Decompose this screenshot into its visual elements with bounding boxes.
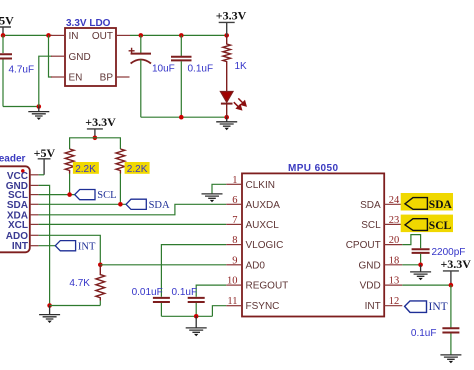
svg-text:20: 20 — [389, 235, 400, 246]
highlight 2.2K left — [73, 162, 99, 174]
MPU right pin leads — [384, 204, 402, 305]
svg-text:23: 23 — [389, 215, 400, 226]
ground header — [39, 306, 60, 324]
wire GND pin18 — [402, 264, 420, 266]
svg-text:IN: IN — [69, 31, 79, 42]
header pin1 mark — [21, 169, 25, 173]
resistor R 2.2K right — [116, 149, 125, 174]
capacitor C 0.1uF fsync — [188, 298, 205, 316]
junction 10uF top — [139, 33, 144, 38]
svg-text:2.2K: 2.2K — [127, 164, 148, 175]
wire AD0 to pin9 — [100, 264, 226, 266]
resistor R 1K — [223, 35, 231, 91]
wire ground rail left — [3, 106, 39, 108]
ground LED — [216, 117, 237, 130]
highlight 2.2K right — [125, 162, 150, 174]
netflag SCL left — [75, 190, 95, 200]
junction AD0 — [98, 263, 103, 268]
svg-text:12: 12 — [389, 296, 400, 307]
svg-text:6: 6 — [232, 195, 237, 206]
resistor R 2.2K left — [65, 149, 74, 174]
svg-text:INT: INT — [12, 241, 28, 252]
netflag INT right — [405, 301, 427, 313]
wire caps ground rail — [141, 116, 227, 118]
supply +5V header symbol — [38, 159, 51, 175]
svg-text:INT: INT — [365, 301, 381, 312]
wire CLKIN ground — [212, 184, 226, 193]
svg-text:AD0: AD0 — [246, 260, 266, 271]
svg-text:SDA: SDA — [429, 199, 453, 211]
svg-text:VDD: VDD — [360, 281, 381, 292]
netflag SDA right — [405, 198, 427, 210]
svg-text:+3.3V: +3.3V — [216, 9, 247, 23]
pin IN lead — [51, 34, 65, 36]
svg-text:1: 1 — [232, 175, 237, 186]
junction at +5V drop — [1, 33, 6, 38]
netflag SCL right — [405, 219, 427, 231]
svg-text:1K: 1K — [235, 61, 248, 72]
wire CPOUT — [402, 235, 420, 249]
LED D1 — [220, 92, 246, 118]
svg-text:SCL: SCL — [429, 220, 452, 232]
junction GND bottom — [47, 303, 52, 308]
svg-text:4.7uF: 4.7uF — [9, 65, 35, 76]
junction 0.1uF top — [179, 33, 184, 38]
wire VDD — [402, 284, 451, 286]
junction GND pin18 — [418, 263, 423, 268]
netflag SDA left — [126, 199, 146, 209]
svg-text:MPU 6050: MPU 6050 — [288, 163, 338, 174]
svg-text:GND: GND — [69, 52, 91, 63]
svg-text:+5V: +5V — [34, 146, 56, 160]
svg-text:CPOUT: CPOUT — [346, 240, 381, 251]
wire OUT rail — [130, 34, 227, 36]
capacitor C 10uF polarized — [129, 35, 151, 117]
capacitor C 0.1uF vdd — [442, 285, 459, 355]
pin BP lead — [116, 76, 130, 78]
svg-text:GND: GND — [358, 260, 380, 271]
svg-text:3.3V LDO: 3.3V LDO — [66, 18, 111, 29]
pin EN lead — [51, 76, 65, 78]
wire XCL to AUXCL — [39, 223, 227, 225]
junction left ground — [37, 104, 42, 109]
svg-text:AUXCL: AUXCL — [246, 220, 280, 231]
junction 0.1uF bottom — [179, 115, 184, 120]
svg-text:9: 9 — [232, 255, 237, 266]
svg-text:8: 8 — [232, 235, 237, 246]
svg-text:CLKIN: CLKIN — [246, 180, 275, 191]
wire pullup rail — [70, 138, 121, 149]
pin OUT lead — [116, 34, 130, 36]
junction pullup rail — [93, 136, 98, 141]
wire VCC — [39, 174, 45, 176]
svg-text:SDA: SDA — [360, 200, 381, 211]
svg-text:BP: BP — [100, 73, 114, 84]
svg-text:Header: Header — [0, 154, 26, 165]
wire ADO down — [39, 235, 101, 264]
junction VDD — [449, 283, 454, 288]
ground pin18 — [410, 265, 431, 281]
svg-text:XCL: XCL — [8, 220, 28, 231]
junction SDA pullup — [118, 202, 123, 207]
svg-text:7: 7 — [232, 215, 237, 226]
junction 3.3V rail end — [224, 33, 229, 38]
junction at IN/EN tie — [46, 33, 51, 38]
supply +5V top-left symbol — [0, 27, 11, 35]
highlight SDA flag — [401, 193, 453, 211]
svg-text:INT: INT — [429, 301, 448, 313]
svg-text:SDA: SDA — [7, 200, 28, 211]
wire SCL — [39, 194, 75, 196]
svg-text:EN: EN — [69, 73, 83, 84]
svg-text:2.2K: 2.2K — [75, 164, 96, 175]
svg-text:+5V: +5V — [0, 14, 14, 28]
wire ground rail to 4.7K — [50, 305, 101, 307]
wire SDA — [39, 203, 126, 205]
IC U MPU 6050 box — [242, 173, 384, 316]
svg-text:4.7K: 4.7K — [69, 278, 90, 289]
wire GND down — [39, 185, 50, 305]
wire +5V rail to LDO IN — [3, 34, 52, 36]
ground CLKIN — [202, 194, 223, 202]
svg-text:0.1uF: 0.1uF — [188, 64, 214, 75]
regulator U LDO box — [65, 28, 116, 86]
supply +3.3V top symbol — [219, 22, 235, 35]
capacitor C 0.1uF top — [171, 35, 192, 117]
wire INT — [39, 245, 56, 247]
wire LDO GND to ground — [39, 56, 52, 106]
svg-text:10: 10 — [227, 276, 238, 287]
svg-text:11: 11 — [227, 296, 237, 307]
capacitor C 0.01uF — [153, 298, 170, 316]
svg-text:FSYNC: FSYNC — [246, 301, 280, 312]
highlight SCL flag — [401, 215, 453, 233]
wire XDA to AUXDA — [39, 204, 227, 215]
svg-text:AUXDA: AUXDA — [246, 200, 281, 211]
supply +3.3V right symbol — [443, 271, 459, 285]
svg-text:13: 13 — [389, 276, 400, 287]
svg-text:0.1uF: 0.1uF — [172, 287, 198, 298]
resistor R 4.7K — [96, 265, 105, 301]
wire REGOUT cap branch — [196, 285, 226, 297]
connector J Header box — [0, 166, 30, 252]
svg-text:24: 24 — [389, 195, 400, 206]
wire VLOGIC cap branch — [161, 245, 226, 297]
capacitor C 4.7uF — [0, 35, 12, 106]
pin GND lead — [51, 55, 65, 57]
svg-text:0.1uF: 0.1uF — [411, 328, 437, 339]
svg-text:10uF: 10uF — [152, 64, 175, 75]
capacitor C 2200pF — [412, 249, 430, 264]
ground left — [28, 107, 49, 121]
svg-text:REGOUT: REGOUT — [246, 281, 289, 292]
ground bottom mid — [186, 316, 207, 336]
netflag INT left — [55, 241, 75, 251]
svg-text:ADO: ADO — [6, 231, 28, 242]
svg-text:SDA: SDA — [149, 200, 170, 211]
wire FSYNC — [212, 306, 226, 317]
svg-text:VLOGIC: VLOGIC — [246, 240, 284, 251]
svg-text:+3.3V: +3.3V — [85, 115, 116, 129]
junction SCL pullup — [67, 192, 72, 197]
svg-text:OUT: OUT — [92, 31, 113, 42]
junction LED cathode ground — [224, 115, 229, 120]
svg-text:0.01uF: 0.01uF — [132, 287, 163, 298]
junction bottom ground — [194, 314, 199, 319]
svg-text:SCL: SCL — [97, 190, 116, 201]
svg-text:SCL: SCL — [361, 220, 381, 231]
ground vdd cap — [440, 355, 461, 363]
header pin leads — [30, 175, 39, 246]
supply +3.3V mid symbol — [87, 129, 103, 138]
wire IN-EN tie — [49, 35, 53, 77]
svg-text:18: 18 — [389, 255, 400, 266]
svg-text:+3.3V: +3.3V — [440, 257, 471, 271]
svg-text:INT: INT — [78, 241, 96, 252]
wire bottom ground rail — [161, 315, 212, 317]
MPU left pin leads — [226, 184, 242, 305]
